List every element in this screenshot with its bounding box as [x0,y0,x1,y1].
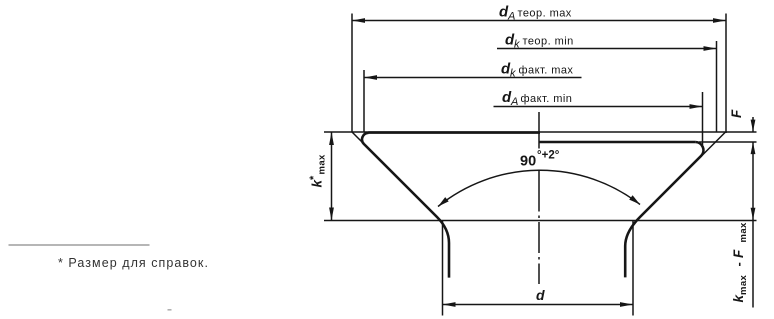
ext line dA teor max right [725,14,727,134]
90 degree arc with arrows [438,170,640,206]
thick left profile: fillet, cone, root fillet, shank [362,133,449,278]
head outline: left half (max head) [324,132,540,278]
ext line dk fakt max left [363,70,365,133]
svg-text:A: A [510,96,518,108]
F label (rotated) [729,109,744,118]
ext line dA fakt min right [702,92,704,146]
svg-text:max: max [738,222,749,243]
svg-text:max: max [317,154,328,175]
left arc arrowhead [438,197,449,206]
svg-text:d: d [536,287,545,303]
thick flat top right [539,141,695,143]
k*max dimension (left) [331,132,333,221]
svg-text:F: F [731,249,746,258]
svg-text:факт. max: факт. max [519,64,574,76]
ext line dk teor min right [716,41,718,132]
dimension row 3: d_k факт. max [364,77,582,79]
svg-text:*: * [308,175,320,180]
svg-text:max: max [738,274,749,295]
svg-text:* Размер для справок.: * Размер для справок. [58,256,209,270]
svg-text:факт. min: факт. min [521,93,573,105]
svg-text:-: - [731,262,746,266]
svg-text:k: k [510,67,516,79]
ext line dA teor max left [351,14,353,133]
head outline: right half (min head) [539,132,757,277]
svg-text:теор. max: теор. max [518,8,572,20]
svg-text:90: 90 [520,154,536,170]
k*max label (rotated) [308,154,328,188]
thin theoretical flat plane (left stub) [324,131,369,133]
kmax - Fmax label (rotated) [731,222,749,303]
reference line (bottom of head) [324,220,757,222]
F dimension (right) [752,117,754,308]
thin actual-top plane extension right [699,141,757,143]
dimension row 2: d_k теор. min [497,48,717,50]
svg-text:теор. min: теор. min [523,36,574,48]
dimension row 4: d_A факт. min [494,106,703,108]
thin theoretical flat plane right [539,131,757,133]
dimension row 1: d_A теор. max [352,20,726,22]
thick flat top left [369,131,541,134]
thin theoretical corner diagonal right [701,132,726,157]
center line (dash-dot) [538,112,540,284]
thin theoretical corner diagonal left [352,132,365,145]
svg-text:A: A [507,11,515,23]
footnote separator line [9,244,150,246]
svg-text:°+2°: °+2° [537,150,560,162]
svg-text:F: F [729,109,744,118]
right arc arrowhead [629,195,640,204]
90°+2° label [520,150,560,170]
extension lines (top) [352,14,726,147]
thick right profile: fillet, cone, root fillet, shank [625,142,703,277]
tiny scan artifact dot [168,309,172,311]
svg-text:k: k [514,39,520,51]
d dimension (bottom) [443,221,634,316]
